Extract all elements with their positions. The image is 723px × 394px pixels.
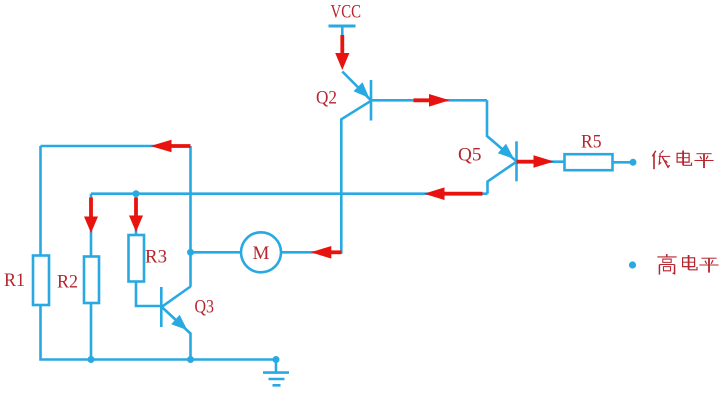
svg-text:Q5: Q5 [458, 145, 482, 166]
svg-text:R2: R2 [57, 272, 78, 293]
ground stub [275, 360, 278, 372]
wire Q3 collector diagonal [162, 287, 191, 307]
transistor Q3 bar [160, 287, 163, 327]
current arrowhead into R2 (down) [84, 217, 98, 234]
transistor Q5 emitter arrowhead [498, 144, 514, 159]
wire R1 branch and bottom rail [41, 146, 277, 360]
wire Q5 collector diagonal [488, 162, 517, 194]
svg-text:R3: R3 [145, 247, 167, 268]
wire Q2 emitter diagonal [342, 72, 371, 101]
svg-text:R1: R1 [4, 270, 25, 291]
label 高 (gao) of 高电平 [657, 254, 676, 275]
wire top rail VCC bar [329, 25, 356, 28]
current arrow line Q5 base [517, 160, 535, 164]
svg-text:Q3: Q3 [195, 297, 215, 318]
transistor Q2 emitter arrowhead [354, 82, 370, 98]
label 低 (di) of 低电平 [652, 150, 670, 169]
resistor R3 [129, 235, 145, 282]
junction dot at R3 top wire [133, 190, 140, 197]
label 电 (dian) of 高电平 [683, 255, 697, 270]
legend dot high-level [629, 261, 636, 268]
wire mid horizontal [91, 192, 488, 195]
current arrowhead from VCC (down) [335, 53, 349, 70]
current arrow line from VCC [340, 35, 344, 54]
svg-text:VCC: VCC [331, 1, 362, 22]
label 平 (ping) of 低电平 [694, 154, 713, 168]
current arrow line top feedback [171, 144, 191, 148]
wire motor left to junction [191, 251, 242, 254]
junction dot motor-left / Q3 collector [187, 249, 194, 256]
wire Q2 base lead [371, 99, 487, 102]
wire VCC stub [341, 26, 344, 39]
current arrowhead into R3 (down) [129, 216, 143, 233]
junction dot R2 bottom [88, 356, 95, 363]
wire vertical x190 to Q3 collector [189, 146, 192, 287]
current arrow line into R3 [134, 198, 138, 218]
svg-text:M: M [253, 243, 270, 264]
transistor Q3 emitter arrowhead [171, 315, 187, 330]
svg-text:Q2: Q2 [316, 88, 337, 109]
terminal dot low-level output [630, 159, 637, 166]
motor M circle [241, 232, 281, 272]
wire R2 leads [90, 194, 93, 360]
junction dot ground [273, 356, 280, 363]
current arrow line mid wire [444, 192, 483, 196]
transistor Q2 bar [370, 80, 373, 121]
label 平 (ping) of 高电平 [699, 258, 718, 272]
wire Q5 base to R5 [517, 160, 565, 163]
current arrowhead Q5 base (right) [534, 155, 555, 168]
current arrowhead top feedback (left) [151, 140, 172, 153]
wire Q5 emitter path [487, 100, 517, 161]
ground bars [263, 373, 289, 386]
current arrow line motor [331, 250, 342, 254]
resistor R2 [84, 257, 99, 304]
wire Q2 collector diagonal and vertical to motor wire [281, 101, 371, 253]
label 电 (dian) of 低电平 [677, 151, 691, 166]
resistor R1 [33, 256, 49, 306]
current arrowhead Q2 base (right) [429, 94, 450, 107]
current arrowhead mid wire (left) [424, 187, 445, 200]
current arrowhead motor wire (left) [311, 246, 332, 259]
wire R3 leads and Q3 base [136, 194, 161, 306]
current arrow line into R2 [89, 198, 93, 219]
junction dot Q3 emitter bottom [187, 356, 194, 363]
wire R5 right to terminal [613, 161, 631, 164]
resistor R5 [565, 154, 613, 170]
wire Q3 emitter diagonal and vertical [162, 307, 191, 360]
wire top feedback [41, 145, 191, 148]
current arrow line Q2 base [414, 98, 431, 102]
transistor Q5 bar [515, 141, 518, 181]
svg-text:R5: R5 [581, 132, 602, 153]
